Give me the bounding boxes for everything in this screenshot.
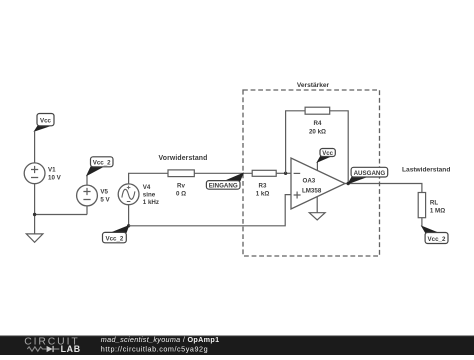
svg-text:Vcc_2: Vcc_2 xyxy=(105,235,123,242)
svg-text:1 MΩ: 1 MΩ xyxy=(430,208,445,215)
junction dot (output/feedback) xyxy=(347,182,350,185)
wire Rv to R3 xyxy=(194,172,252,174)
ground symbol (main) xyxy=(26,234,43,242)
svg-text:R4: R4 xyxy=(314,120,322,127)
svg-text:0 Ω: 0 Ω xyxy=(176,191,186,198)
junction dot (V4 bottom / Vcc_2 rail) xyxy=(127,224,130,227)
svg-text:1 kΩ: 1 kΩ xyxy=(256,191,270,198)
wire V5 top xyxy=(86,175,88,185)
svg-text:20 kΩ: 20 kΩ xyxy=(309,128,326,135)
svg-text:Vcc: Vcc xyxy=(322,151,333,157)
svg-text:Vcc_2: Vcc_2 xyxy=(93,159,111,166)
svg-text:EINGANG: EINGANG xyxy=(209,182,238,189)
wire junction to V5 xyxy=(35,214,87,216)
node EINGANG flag xyxy=(206,173,243,189)
svg-text:Vorwiderstand: Vorwiderstand xyxy=(159,155,208,162)
node Vcc_2 flag (above V5) xyxy=(87,157,113,175)
node Vcc_2 flag (below RL) xyxy=(422,226,448,243)
wire V4 top to Rv xyxy=(129,173,168,184)
svg-text:V5: V5 xyxy=(100,189,108,196)
wire op-amp ground stub xyxy=(316,197,318,213)
wire noninverting rail xyxy=(129,195,291,226)
footer bar xyxy=(0,336,474,356)
junction dot (V1/V5/gnd) xyxy=(33,213,36,216)
voltage source V4 (sine) xyxy=(118,184,159,206)
svg-text:OA3: OA3 xyxy=(303,177,316,184)
wire R4 right leg down to output xyxy=(330,111,349,184)
junction node (feedback tap) xyxy=(284,172,287,175)
voltage source V5 xyxy=(77,185,111,206)
svg-text:V4: V4 xyxy=(143,184,151,191)
svg-text:LM358: LM358 xyxy=(302,187,322,194)
wire R3 to op-amp inverting input xyxy=(276,172,291,174)
voltage source V1 xyxy=(24,163,61,184)
svg-text:10 V: 10 V xyxy=(48,175,62,182)
node Vcc flag (op-amp supply) xyxy=(317,149,335,163)
ground symbol (op-amp) xyxy=(309,213,325,220)
svg-text:Verstärker: Verstärker xyxy=(297,82,330,89)
svg-text:Rv: Rv xyxy=(177,183,185,190)
footer credit text xyxy=(101,335,220,353)
node Vcc_2 flag (below V4) xyxy=(103,226,129,243)
resistor Rv xyxy=(159,155,208,198)
wire RL bottom xyxy=(421,218,423,227)
svg-text:R3: R3 xyxy=(259,183,267,190)
svg-text:RL: RL xyxy=(430,200,438,207)
logo resistor zigzag + diode + LAB xyxy=(27,344,80,354)
resistor R3 xyxy=(252,170,276,197)
wire op-amp Vcc stub xyxy=(316,162,318,171)
node Vcc flag (top left) xyxy=(35,114,54,132)
svg-text:Vcc_2: Vcc_2 xyxy=(428,236,446,243)
wire V1 bottom to ground xyxy=(34,184,36,234)
svg-text:5 V: 5 V xyxy=(100,197,110,204)
wire V5 bottom xyxy=(86,206,88,215)
wire Vcc to V1 top xyxy=(34,131,36,163)
resistor RL xyxy=(402,167,450,218)
wire output to RL xyxy=(345,184,422,193)
op-amp OA3 xyxy=(291,158,345,209)
svg-text:LAB: LAB xyxy=(61,344,81,354)
svg-text:1 kHz: 1 kHz xyxy=(143,199,159,206)
svg-text:AUSGANG: AUSGANG xyxy=(354,170,386,177)
svg-text:sine: sine xyxy=(143,191,156,198)
resistor R4 xyxy=(305,107,330,135)
dashed subcircuit box Verstärker xyxy=(243,82,380,256)
wire V4 bottom xyxy=(128,205,130,226)
svg-text:http://circuitlab.com/c5ya92g: http://circuitlab.com/c5ya92g xyxy=(101,344,208,353)
wire feedback left leg up to R4 xyxy=(286,111,306,174)
svg-text:mad_scientist_kyouma / OpAmp1: mad_scientist_kyouma / OpAmp1 xyxy=(101,335,220,344)
node AUSGANG flag xyxy=(348,167,388,183)
svg-text:Lastwiderstand: Lastwiderstand xyxy=(402,167,450,174)
svg-text:V1: V1 xyxy=(48,167,56,174)
svg-text:Vcc: Vcc xyxy=(40,118,52,125)
